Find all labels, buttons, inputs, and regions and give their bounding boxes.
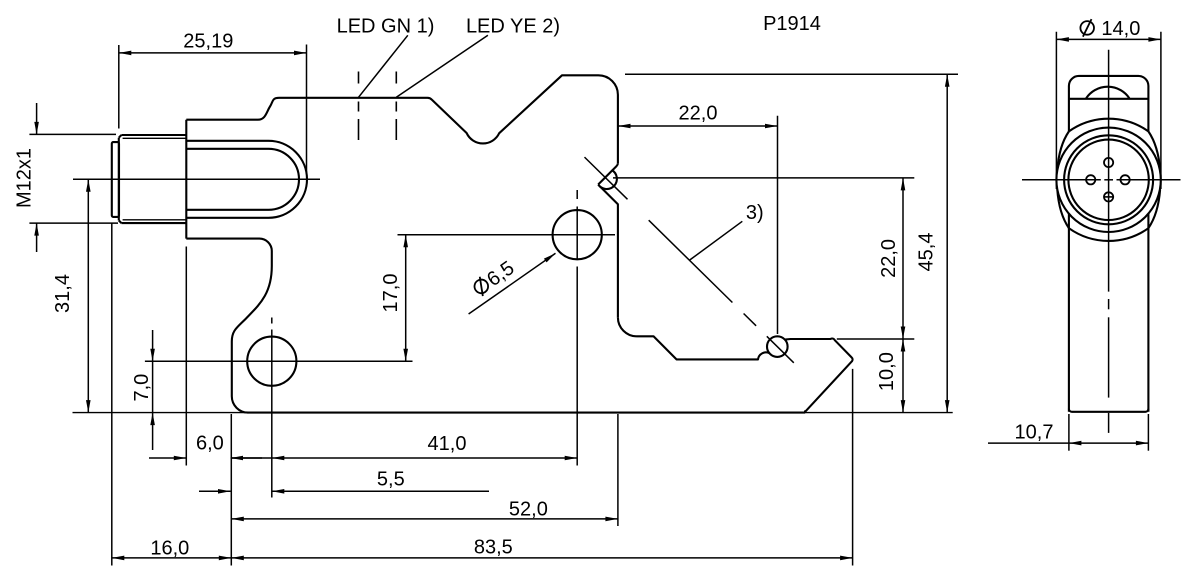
- svg-text:22,0: 22,0: [679, 102, 718, 124]
- mounting hole lower-left Ø6.5: [247, 337, 296, 386]
- recess ledge outline: [618, 317, 770, 359]
- dimension 22,0 vertical: [613, 178, 914, 339]
- svg-text:10,0: 10,0: [876, 352, 898, 391]
- upper hole horizontal centerline: [398, 234, 616, 236]
- lower hole vertical centerline: [271, 318, 273, 498]
- dimension 83,5: [231, 537, 852, 561]
- connector axis centerline: [73, 178, 320, 180]
- end view knurl side blends: [1057, 131, 1160, 228]
- LED YE leader line: [396, 35, 488, 97]
- foot outline: [785, 339, 853, 412]
- end view connector outer circle: [1056, 128, 1160, 232]
- end view vertical centerline: [1108, 50, 1110, 433]
- svg-text:17,0: 17,0: [380, 274, 402, 313]
- body lower-left ledge and S-curve: [186, 239, 271, 413]
- label LED GN 1): [337, 16, 435, 38]
- svg-text:31,4: 31,4: [52, 274, 74, 313]
- svg-text:M12x1: M12x1: [14, 148, 36, 208]
- end view body sides: [1069, 214, 1149, 412]
- end view knurl top shoulder arc: [1069, 119, 1149, 132]
- svg-text:LED GN 1): LED GN 1): [337, 16, 435, 38]
- connector sleeve outer outline: [186, 141, 307, 218]
- dimension 10,0: [876, 339, 905, 413]
- diagonal slot dash-dot axis: [585, 157, 794, 363]
- connector sleeve inner outline: [186, 149, 299, 210]
- connector end cap: [112, 142, 119, 217]
- end view connector face rings: [1064, 135, 1153, 224]
- LED GN leader line: [359, 35, 408, 97]
- extension line cap face: [111, 224, 113, 566]
- dimension 31,4: [52, 179, 90, 412]
- end view pin bottom: [1104, 192, 1113, 201]
- svg-text:3): 3): [746, 202, 764, 224]
- leader and label Ø6,5: [469, 253, 556, 314]
- dimension 52,0: [231, 498, 618, 521]
- end view horizontal centerline: [1022, 179, 1181, 181]
- svg-text:P1914: P1914: [763, 13, 821, 35]
- dimension 22,0 horizontal: [618, 102, 778, 334]
- diagonal slot upper end notch: [598, 163, 618, 317]
- label LED YE 2): [466, 16, 560, 38]
- leader and label 3): [690, 202, 764, 260]
- lower hole horizontal centerline: [145, 360, 413, 362]
- svg-text:16,0: 16,0: [150, 537, 189, 559]
- M12 threaded barrel: [119, 135, 187, 223]
- diagonal slot lower end hole: [767, 336, 788, 357]
- dimension 7,0: [131, 330, 155, 450]
- dimension M12x1: [14, 103, 118, 252]
- svg-text:25,19: 25,19: [183, 31, 233, 53]
- label P1914: [763, 13, 821, 35]
- dimension 10,7: [988, 414, 1148, 451]
- mounting hole upper Ø6.5: [553, 210, 602, 259]
- end view pin right: [1121, 175, 1130, 184]
- dimension 41,0: [231, 433, 578, 460]
- svg-text:7,0: 7,0: [131, 374, 153, 402]
- svg-text:22,0: 22,0: [878, 239, 900, 278]
- svg-text:52,0: 52,0: [509, 498, 548, 520]
- dimension 25,19: [119, 31, 307, 174]
- end view pin left: [1086, 175, 1095, 184]
- end view top cap: [1069, 76, 1149, 131]
- body bottom edge: [248, 412, 806, 414]
- upper hole vertical centerline: [576, 190, 578, 466]
- end view pin top: [1104, 158, 1113, 167]
- extension line foot tip: [852, 369, 854, 566]
- svg-text:LED YE 2): LED YE 2): [466, 16, 560, 38]
- dimension 5,5: [199, 468, 489, 493]
- svg-text:83,5: 83,5: [474, 537, 513, 559]
- end view knurl bottom shoulder arc: [1069, 228, 1149, 241]
- dimension 45,4: [625, 74, 958, 412]
- body left edge: [185, 120, 187, 239]
- svg-text:14,0: 14,0: [1101, 18, 1140, 40]
- svg-text:10,7: 10,7: [1015, 422, 1054, 444]
- LED YE dashed mark: [395, 72, 397, 141]
- svg-text:6,0: 6,0: [196, 433, 224, 455]
- dimension 17,0: [380, 235, 408, 362]
- extension line notch edge: [230, 414, 232, 566]
- body outline top: [186, 75, 618, 163]
- dimension 6,0: [149, 433, 262, 461]
- dimension Ø14,0: [1056, 18, 1161, 189]
- extension line body right edge: [617, 414, 619, 526]
- extension line body left edge: [185, 247, 187, 466]
- LED GN dashed mark: [358, 72, 360, 141]
- svg-text:45,4: 45,4: [915, 233, 937, 272]
- dimension 16,0: [112, 537, 232, 560]
- svg-text:5,5: 5,5: [377, 468, 405, 490]
- svg-text:41,0: 41,0: [428, 433, 467, 455]
- bottom extension line: [73, 412, 953, 414]
